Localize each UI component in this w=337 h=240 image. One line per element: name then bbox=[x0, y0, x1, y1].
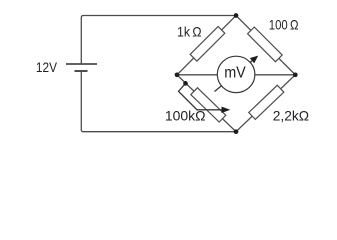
svg-text:100 Ω: 100 Ω bbox=[269, 16, 299, 32]
svg-text:12V: 12V bbox=[36, 59, 58, 75]
resistor R1 1kOhm body bbox=[190, 26, 225, 61]
wiper junction dot bbox=[183, 81, 188, 86]
meter needle arrow line bbox=[215, 61, 253, 92]
svg-text:2,2kΩ: 2,2kΩ bbox=[273, 108, 309, 124]
node L junction dot bbox=[175, 72, 180, 77]
wire: bridge arm top-right (node T to node R) bbox=[236, 16, 295, 75]
wire: bridge arm top-left (node L to node T) bbox=[177, 16, 236, 75]
resistor R2 100Ohm body bbox=[248, 27, 283, 62]
resistor R4 2,2kOhm body bbox=[249, 85, 284, 119]
svg-text:mV: mV bbox=[224, 65, 246, 82]
wire: bottom wire from battery to bottom node bbox=[81, 71, 236, 132]
wiper arrow of variable resistor R3 bbox=[179, 83, 224, 109]
resistor R3 100kOhm body (variable) bbox=[191, 88, 226, 122]
node T junction dot bbox=[234, 13, 239, 18]
wire: top wire from battery to top node bbox=[81, 16, 236, 65]
node R junction dot bbox=[293, 72, 298, 77]
battery V1 12V bbox=[66, 64, 97, 71]
svg-text:100kΩ: 100kΩ bbox=[165, 108, 206, 124]
arrowhead of meter arrow bbox=[250, 56, 258, 64]
op meter M1 circle (mV meter) bbox=[217, 56, 255, 92]
wire: bridge arm bottom-right (node R to node B) bbox=[236, 75, 295, 132]
wire: bridge arm bottom-left (node L to node B) bbox=[177, 75, 236, 132]
arrowhead of wiper arrow bbox=[222, 107, 231, 113]
wire: meter bridge wire (node L to node R) bbox=[177, 74, 295, 76]
node B junction dot bbox=[234, 129, 239, 134]
svg-text:1k Ω: 1k Ω bbox=[177, 24, 202, 40]
